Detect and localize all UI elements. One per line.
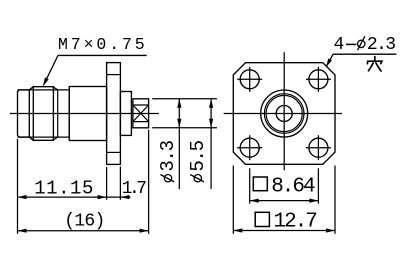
side view: threaded barrel M7 outline xyxy=(29,87,53,141)
front view: square flange outline with chamfered corners xyxy=(233,63,335,165)
svg-text:M7×0.75: M7×0.75 xyxy=(58,35,148,54)
dim 8.64 square symbol xyxy=(253,177,267,191)
dim (16) dimension line xyxy=(18,230,149,232)
front view: horizontal centerline xyxy=(224,113,342,115)
label M7x0.75 underline and leader xyxy=(58,54,147,56)
label kanji "hole" xyxy=(367,57,382,71)
dim phi3.3 dimension line xyxy=(178,99,180,189)
dim 12.7 dimension line xyxy=(233,230,335,232)
side view: rear boss cylinder xyxy=(120,92,131,136)
dim phi5.5 dimension line xyxy=(210,99,212,189)
side view: insulator bushing with cross-hatch xyxy=(133,99,149,128)
label 4-phi2.3 underline and leader xyxy=(333,53,396,55)
dim phi3.3 rotated text xyxy=(157,140,179,182)
svg-text:8.64: 8.64 xyxy=(271,175,315,198)
svg-text:11.15: 11.15 xyxy=(34,177,94,199)
front view: top-left mounting hole xyxy=(240,70,259,89)
dim (16) extension line right xyxy=(148,130,150,234)
dim 12.7 square symbol xyxy=(255,212,269,226)
dim 11.15 / 1.7 dimension line xyxy=(18,196,131,198)
svg-text:2.3: 2.3 xyxy=(367,35,395,55)
svg-text:3.3: 3.3 xyxy=(157,140,179,171)
front view: bottom-right mounting hole xyxy=(309,138,328,157)
svg-text:1.7: 1.7 xyxy=(122,179,146,199)
dim 8.64 dimension line xyxy=(250,200,319,202)
svg-text:4: 4 xyxy=(334,35,345,55)
dim 8.64 extension lines xyxy=(249,168,251,203)
side view: thread minor-diameter lines xyxy=(18,89,70,91)
svg-text:12.7: 12.7 xyxy=(274,210,317,233)
side view: barrel chamfer tangent line xyxy=(32,87,34,141)
dim 12.7 extension lines xyxy=(232,166,234,234)
svg-text:(16): (16) xyxy=(64,212,104,232)
svg-text:5.5: 5.5 xyxy=(187,140,209,171)
dim phi5.5 rotated text xyxy=(187,140,209,182)
front view: top-right mounting hole xyxy=(309,70,328,89)
dim phi3.3/phi5.5 extension lines xyxy=(152,98,217,100)
side view: main body cylinder xyxy=(69,87,106,141)
side view: horizontal centerline xyxy=(10,113,159,115)
side view: step ring between barrel and body xyxy=(53,87,57,140)
dim 11.15 / 1.7 extension lines xyxy=(17,139,19,234)
side view: square mounting flange xyxy=(107,63,121,165)
side view: insulator X cross lines xyxy=(133,105,149,122)
side view: flange corner chamfer lines xyxy=(107,74,121,76)
label M7x0.75 leader arrowhead xyxy=(43,78,49,87)
front view: center connector circles xyxy=(261,90,308,137)
label leader arrowhead xyxy=(326,59,332,68)
side view: coupling nut end section xyxy=(18,90,30,137)
front view: vertical centerline xyxy=(283,52,285,170)
front view: bottom-left mounting hole xyxy=(240,138,259,157)
